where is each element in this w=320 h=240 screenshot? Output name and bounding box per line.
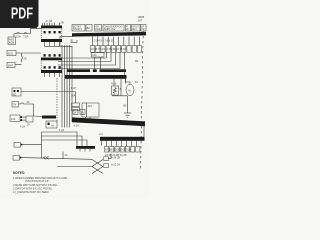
relay label boxes	[73, 110, 85, 115]
svg-text:JUNCTION IS AT J/P.: JUNCTION IS AT J/P.	[25, 180, 49, 183]
connector block A top bar	[41, 26, 62, 29]
svg-text:2A: 2A	[65, 154, 68, 157]
crossover labels	[111, 157, 120, 167]
svg-text:2A: 2A	[27, 123, 30, 126]
module pins	[86, 117, 91, 120]
svg-text:4 2A: 4 2A	[59, 129, 64, 132]
svg-text:4 2A: 4 2A	[20, 126, 25, 129]
stub with label 2A	[63, 152, 68, 160]
motor M1	[126, 84, 134, 95]
wire pad riser	[108, 154, 111, 159]
header box labels	[73, 25, 145, 31]
fuse block pin leads	[93, 37, 140, 46]
fan wire 3	[42, 140, 88, 146]
bar2 left pin	[101, 141, 103, 146]
svg-text:1 2 3 4 5 6 7 8 9 10: 1 2 3 4 5 6 7 8 9 10	[92, 40, 114, 43]
svg-text:2B: 2B	[61, 22, 64, 25]
svg-text:FR: FR	[141, 28, 145, 31]
block A bottom bar	[41, 39, 62, 42]
svg-text:M: M	[128, 89, 130, 92]
wire motor to ground	[127, 96, 129, 113]
wire bottom join	[113, 94, 128, 97]
crossover connectors	[104, 157, 109, 168]
svg-text:A-22 2A: A-22 2A	[111, 164, 120, 167]
fan wire 2	[42, 136, 83, 146]
PDF badge	[0, 0, 39, 28]
bar2 fuse boxes	[105, 147, 140, 153]
block A top pin leads	[42, 23, 59, 26]
block B dashed sides	[41, 60, 62, 70]
wire net 2	[58, 61, 111, 63]
wire drop 5	[124, 53, 126, 76]
wire long lower 2	[57, 166, 92, 168]
svg-text:A7 A9: A7 A9	[46, 20, 53, 23]
wire drop 1	[106, 53, 108, 59]
svg-text:12A: 12A	[92, 54, 97, 57]
wire drop sub a	[94, 57, 96, 69]
connector two-pin D1	[12, 88, 21, 96]
wire header link	[60, 37, 73, 47]
sheet number	[138, 15, 145, 23]
resistor box R1	[112, 86, 119, 95]
crossover X2	[92, 167, 103, 174]
block B bottom bar	[41, 70, 62, 73]
svg-text:2A: 2A	[81, 112, 84, 115]
connector E2	[13, 156, 21, 161]
svg-text:1G: 1G	[135, 81, 138, 84]
wire bus to resistor	[113, 79, 115, 86]
svg-text:A7 D8 D9 D6 D4 C9 D4: A7 D8 D9 D6 D4 C9 D4	[105, 149, 132, 152]
fuse block bus bar	[72, 32, 146, 37]
block B pin row upper	[44, 54, 61, 56]
svg-text:2A: 2A	[27, 101, 30, 104]
wire bus to motor	[126, 79, 131, 85]
svg-text:TN: TN	[13, 104, 17, 107]
module box A-15	[82, 103, 99, 117]
wire drop sub b	[100, 57, 102, 69]
wire drop 4	[119, 53, 121, 69]
svg-text:A/T: A/T	[138, 19, 143, 23]
svg-text:SCS: SCS	[8, 53, 13, 56]
svg-text:A-26 2B: A-26 2B	[111, 157, 120, 160]
svg-text:A15: A15	[88, 105, 93, 108]
fuse row boxes	[91, 46, 142, 53]
connector two-pin D3	[10, 115, 26, 122]
connector RADIO	[8, 34, 16, 45]
svg-text:1.5A: 1.5A	[16, 35, 21, 38]
bar link vertical	[143, 126, 145, 137]
svg-text:A13: A13	[11, 118, 16, 121]
svg-text:B-07: B-07	[71, 87, 77, 90]
svg-text:SW RLY: SW RLY	[73, 28, 83, 31]
ground	[124, 113, 131, 117]
junction bus small	[76, 146, 95, 149]
svg-text:UGE: UGE	[95, 28, 101, 31]
svg-text:1B: 1B	[135, 60, 138, 63]
pin stub	[36, 26, 38, 29]
svg-text:NOTES:: NOTES:	[13, 171, 25, 175]
bar2 pin leads	[107, 141, 137, 147]
arrow marks on wire	[44, 156, 49, 159]
short bus bar left	[42, 116, 56, 119]
svg-text:4.[_] DENOTE PART NO. SERV.: 4.[_] DENOTE PART NO. SERV.	[13, 191, 49, 194]
bus bar hook	[125, 79, 127, 84]
wire net 5	[21, 91, 76, 93]
svg-text:RLY: RLY	[132, 28, 137, 31]
block A pin row	[44, 31, 61, 33]
connector SWT	[7, 62, 22, 67]
wire battery feed	[14, 33, 31, 35]
wire module feed	[75, 92, 77, 104]
connector block B top bar	[41, 58, 62, 61]
junction bus pins	[80, 149, 90, 152]
connector mini J	[26, 116, 33, 122]
svg-text:A-2: A-2	[99, 133, 104, 136]
block B bottom pin leads	[45, 73, 60, 77]
main bus bar lower	[72, 117, 145, 126]
block B pin row lower	[44, 66, 61, 68]
wire collector A	[45, 45, 73, 47]
svg-text:SWT: SWT	[8, 65, 14, 68]
fuse sub box	[92, 53, 105, 57]
connector E1	[14, 143, 42, 148]
svg-text:7.5A: 7.5A	[23, 35, 28, 38]
fuse F1 1.5A	[17, 32, 20, 33]
wire net 4	[58, 68, 120, 70]
wire net 6	[19, 103, 34, 116]
connector SCS	[7, 51, 41, 56]
dashed harness line	[56, 78, 58, 123]
wire to junction bar	[34, 115, 43, 118]
connector under short bar	[46, 121, 57, 128]
wire net 3	[58, 64, 116, 66]
bus bar upper segment 1	[67, 69, 90, 72]
wire drop 2	[110, 53, 112, 62]
svg-text:2A: 2A	[24, 58, 27, 61]
block A dashed sides	[41, 28, 62, 39]
wire drop 3	[115, 53, 117, 66]
svg-text:AMPL IG2: AMPL IG2	[104, 28, 116, 31]
small connector pair	[72, 103, 80, 111]
stub wire B1	[71, 40, 78, 43]
connector D2	[12, 102, 19, 108]
fuse on drop 2A	[22, 53, 27, 62]
fuse F2 7.5A	[24, 32, 27, 33]
header title boxes	[72, 25, 146, 32]
fan wire 1	[42, 132, 78, 146]
crossover X1	[92, 160, 103, 167]
wire bundle verticals	[62, 45, 72, 128]
wire bus middle lead	[120, 79, 122, 96]
bus bar upper segment 2	[93, 69, 97, 72]
svg-text:ACM: ACM	[9, 42, 15, 45]
bus bar upper segment 3	[100, 69, 127, 72]
wire to connector block A	[31, 29, 42, 34]
page edge dashed line	[141, 31, 144, 170]
svg-text:10 15 7.5 10 10 15 20 10 15 10: 10 15 7.5 10 10 15 20 10 15 10	[91, 48, 126, 51]
svg-text:PDF: PDF	[11, 5, 33, 22]
left riser wire	[41, 132, 43, 159]
wire long lower 1	[21, 158, 92, 160]
bus bar lower	[65, 75, 127, 79]
wire net 1	[58, 57, 107, 59]
bus bar 2 lower right	[100, 137, 145, 141]
block A bottom pin leads	[45, 42, 60, 47]
svg-text:4 2A: 4 2A	[74, 124, 79, 127]
svg-text:10A: 10A	[71, 95, 76, 98]
